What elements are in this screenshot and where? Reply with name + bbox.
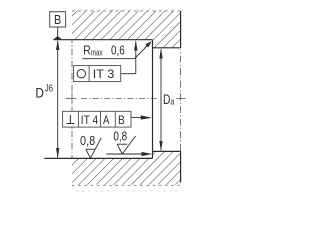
roughness symbol 0,8 on shaft seat <box>80 134 101 158</box>
hatched shaft section bottom <box>72 151 181 191</box>
datum B leader and triangle <box>54 27 62 39</box>
horizontal centerline <box>66 98 158 100</box>
svg-text:A: A <box>103 113 109 127</box>
perpendicularity frame (⊥ IT 4 A B) <box>63 111 152 127</box>
svg-text:0,8: 0,8 <box>113 129 127 143</box>
svg-text:a: a <box>170 97 174 108</box>
circularity frame (O IT 3) <box>74 40 138 81</box>
top bore surface line with left extension <box>53 39 152 41</box>
housing end face edge (top right) <box>153 11 181 48</box>
shoulder face vertical line <box>152 40 154 159</box>
dimension Da (right vertical) <box>159 48 162 151</box>
svg-text:0,8: 0,8 <box>80 134 95 148</box>
label D J6 <box>35 83 53 100</box>
svg-text:B: B <box>118 113 125 127</box>
datum B box <box>50 12 66 28</box>
dimension D J6 (left vertical) <box>56 40 59 158</box>
bottom step edge (right) <box>153 151 181 182</box>
svg-text:IT 3: IT 3 <box>93 67 115 81</box>
svg-text:0,6: 0,6 <box>111 44 125 58</box>
bottom seat surface line with left extension <box>44 157 152 159</box>
svg-text:R: R <box>83 44 91 58</box>
svg-text:D: D <box>35 86 44 101</box>
phantom vertical line (bearing side face, left) <box>71 40 73 159</box>
svg-text:B: B <box>54 13 61 27</box>
vertical centerline (axis of symmetry, right) <box>176 50 185 152</box>
label Da <box>163 92 175 108</box>
svg-text:max: max <box>91 47 103 57</box>
svg-text:J6: J6 <box>45 83 54 94</box>
Rmax 0,6 label with leader <box>82 41 152 59</box>
hatched housing section top <box>72 9 181 47</box>
roughness symbol 0,8 on shoulder face with leader <box>106 129 152 156</box>
svg-text:IT 4: IT 4 <box>81 113 99 127</box>
